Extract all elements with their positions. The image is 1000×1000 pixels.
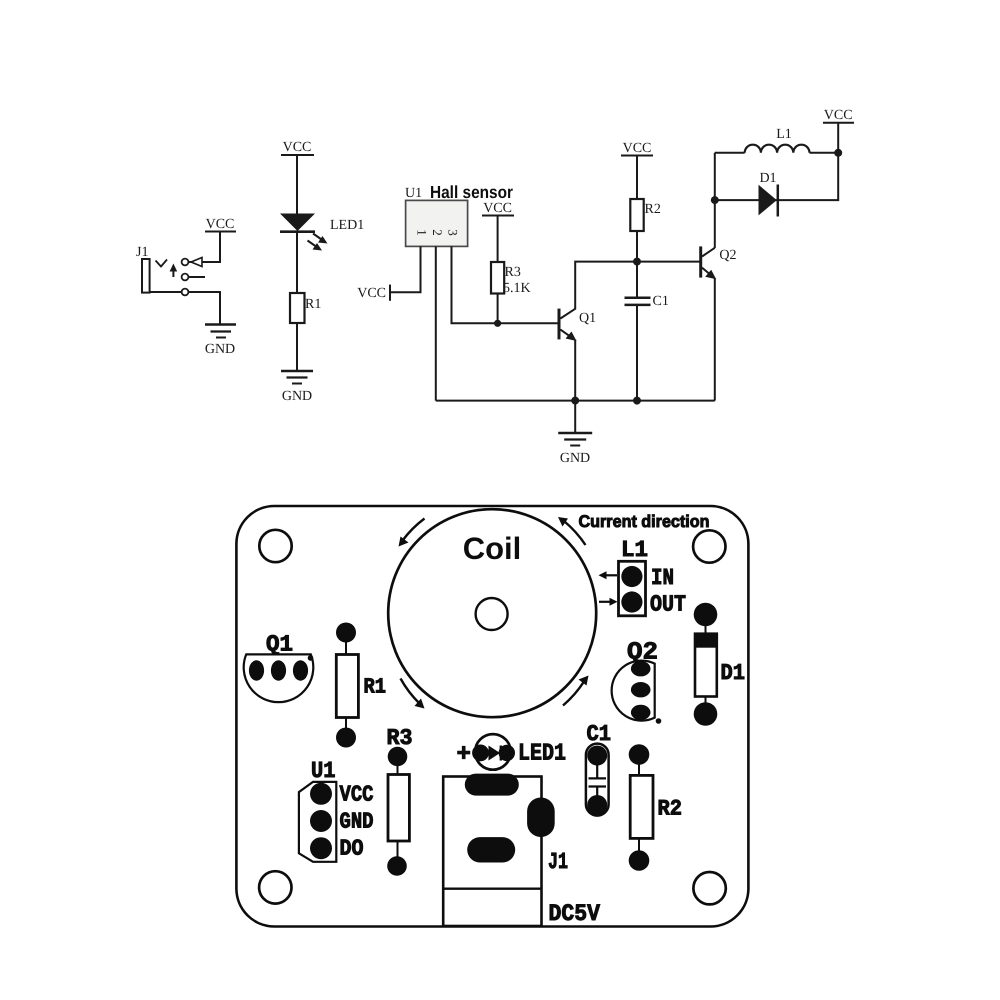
wire U1 pin3 to Q1 base xyxy=(452,246,559,323)
svg-text:IN: IN xyxy=(651,565,674,591)
svg-text:Q2: Q2 xyxy=(719,248,736,263)
svg-text:VCC: VCC xyxy=(357,286,386,301)
transistor Q2 footprint xyxy=(612,640,662,724)
node J1 pin1 xyxy=(182,259,189,266)
svg-text:U1: U1 xyxy=(311,758,336,784)
coil outline xyxy=(388,509,596,717)
svg-text:R1: R1 xyxy=(305,297,321,312)
ground GND (rail) xyxy=(558,433,592,466)
inductor L1 xyxy=(715,127,810,153)
wire Q1 collector xyxy=(575,262,701,310)
rotation arrow top-left xyxy=(399,519,425,547)
svg-text:D1: D1 xyxy=(721,660,746,686)
connector J1 tip contact xyxy=(156,260,168,267)
ground GND (LED column) xyxy=(281,371,313,404)
mounting hole top-left xyxy=(259,530,291,562)
resistor R3 5.1K xyxy=(491,262,531,296)
svg-text:R2: R2 xyxy=(658,797,683,822)
LED LED1 xyxy=(280,214,328,251)
connector J1 body xyxy=(142,259,150,293)
svg-text:GND: GND xyxy=(282,389,312,404)
wire junction to C1 xyxy=(636,262,638,297)
connector J1 footprint xyxy=(443,774,568,926)
wire R2 to base node xyxy=(636,231,638,262)
power VCC (LED column) xyxy=(281,140,314,155)
power VCC (L1) xyxy=(823,108,854,153)
svg-text:L1: L1 xyxy=(621,537,648,563)
svg-text:VCC: VCC xyxy=(623,141,652,156)
svg-text:VCC: VCC xyxy=(483,201,512,216)
svg-text:1: 1 xyxy=(415,229,430,236)
wire L1 to VCC node xyxy=(810,152,839,154)
PCB board outline xyxy=(236,506,748,927)
resistor R1 xyxy=(290,293,321,323)
inductor L1 footprint xyxy=(619,537,649,616)
power VCC (R2) xyxy=(621,141,653,156)
transistor Q2 xyxy=(701,246,737,279)
LED1 footprint xyxy=(472,734,515,770)
wire U1 pin1 to VCC xyxy=(391,246,421,292)
hall sensor U1 xyxy=(405,182,513,246)
wire R1 to GND xyxy=(296,323,298,371)
svg-text:DO: DO xyxy=(340,836,364,862)
wire R3 to junction xyxy=(497,294,499,324)
svg-text:Q1: Q1 xyxy=(579,311,596,326)
svg-text:D1: D1 xyxy=(759,171,776,186)
power VCC (R3) xyxy=(482,201,514,216)
node R2/C1/base junction xyxy=(633,258,641,266)
open arrowhead on J1 VCC wire xyxy=(191,258,202,267)
ground GND (J1) xyxy=(205,325,236,358)
svg-text:LED1: LED1 xyxy=(518,741,566,768)
mounting hole bottom-right xyxy=(693,872,725,904)
coil center hole xyxy=(476,598,508,630)
resistor R2 xyxy=(630,199,661,231)
capacitor C1 footprint xyxy=(586,721,611,816)
svg-text:U1: U1 xyxy=(405,186,422,201)
node Q2 collector / D1 junction xyxy=(711,196,719,204)
svg-text:R1: R1 xyxy=(364,676,387,700)
svg-text:R3: R3 xyxy=(505,265,521,280)
svg-text:Hall sensor: Hall sensor xyxy=(430,182,513,202)
svg-text:Coil: Coil xyxy=(463,531,522,566)
node R3/pin3 junction xyxy=(494,320,501,327)
resistor R3 footprint xyxy=(387,725,413,876)
wire J1 middle contact xyxy=(189,276,206,278)
wire LED1 to R1 xyxy=(296,232,298,293)
wire VCC to J1 pin xyxy=(189,232,221,262)
wire VCC to R3 xyxy=(497,216,499,263)
svg-text:Current direction: Current direction xyxy=(579,512,710,531)
node J1 pin2 xyxy=(182,274,189,281)
wire Q2 emitter to rail xyxy=(714,278,716,401)
arrow in (left) xyxy=(599,571,618,579)
wire VCC to R2 xyxy=(636,156,638,200)
power VCC (U1 pin1) xyxy=(357,285,390,301)
svg-text:VCC: VCC xyxy=(283,140,312,155)
svg-text:2: 2 xyxy=(430,229,445,236)
wire Q2 collector up xyxy=(714,153,716,248)
svg-text:C1: C1 xyxy=(653,294,669,309)
svg-text:3: 3 xyxy=(446,229,461,236)
svg-text:5.1K: 5.1K xyxy=(503,281,531,296)
mounting hole bottom-left xyxy=(259,871,291,903)
svg-text:DC5V: DC5V xyxy=(549,901,601,928)
resistor R1 footprint xyxy=(336,623,386,748)
resistor R2 footprint xyxy=(629,744,682,871)
svg-text:OUT: OUT xyxy=(650,592,686,618)
wire U1 pin2 to ground rail xyxy=(435,246,437,400)
node J1 pin3 xyxy=(182,289,189,296)
diode D1 xyxy=(759,171,778,217)
svg-text:+: + xyxy=(457,742,471,769)
svg-text:GND: GND xyxy=(340,809,374,835)
svg-text:J1: J1 xyxy=(136,245,148,260)
rotation arrow bottom-left xyxy=(401,679,425,709)
rotation arrow top-right / current direction arrow xyxy=(558,517,586,545)
node rail/C1 xyxy=(633,397,641,405)
wire VCC to LED1 xyxy=(296,155,298,214)
svg-text:GND: GND xyxy=(560,451,590,466)
transistor Q1 xyxy=(559,309,596,341)
wire rail to GND xyxy=(574,401,576,433)
mounting hole top-right xyxy=(693,530,725,562)
IC U1 footprint xyxy=(299,758,336,862)
connector J1 wiper arrow xyxy=(170,264,178,278)
svg-text:VCC: VCC xyxy=(340,782,374,808)
node L1/VCC junction xyxy=(834,149,842,157)
arrow out (right) xyxy=(599,598,618,606)
svg-text:R2: R2 xyxy=(645,202,661,217)
capacitor C1 xyxy=(625,294,669,309)
svg-text:LED1: LED1 xyxy=(330,218,364,233)
transistor Q1 footprint xyxy=(244,632,314,703)
wire D1 branch xyxy=(715,153,838,200)
svg-text:GND: GND xyxy=(205,342,235,357)
node rail/Q1 emitter xyxy=(571,397,579,405)
svg-text:L1: L1 xyxy=(776,127,792,142)
svg-text:VCC: VCC xyxy=(206,217,235,232)
wire C1 to rail xyxy=(636,305,638,401)
rotation arrow bottom-right xyxy=(563,676,589,706)
wire J1 sleeve to GND xyxy=(150,292,220,324)
wire Q1 emitter to rail xyxy=(574,340,576,401)
wire ground rail xyxy=(436,400,715,402)
svg-text:J1: J1 xyxy=(548,849,568,875)
power VCC (J1) xyxy=(205,217,236,232)
svg-text:VCC: VCC xyxy=(824,108,853,123)
diode D1 footprint xyxy=(694,603,745,726)
